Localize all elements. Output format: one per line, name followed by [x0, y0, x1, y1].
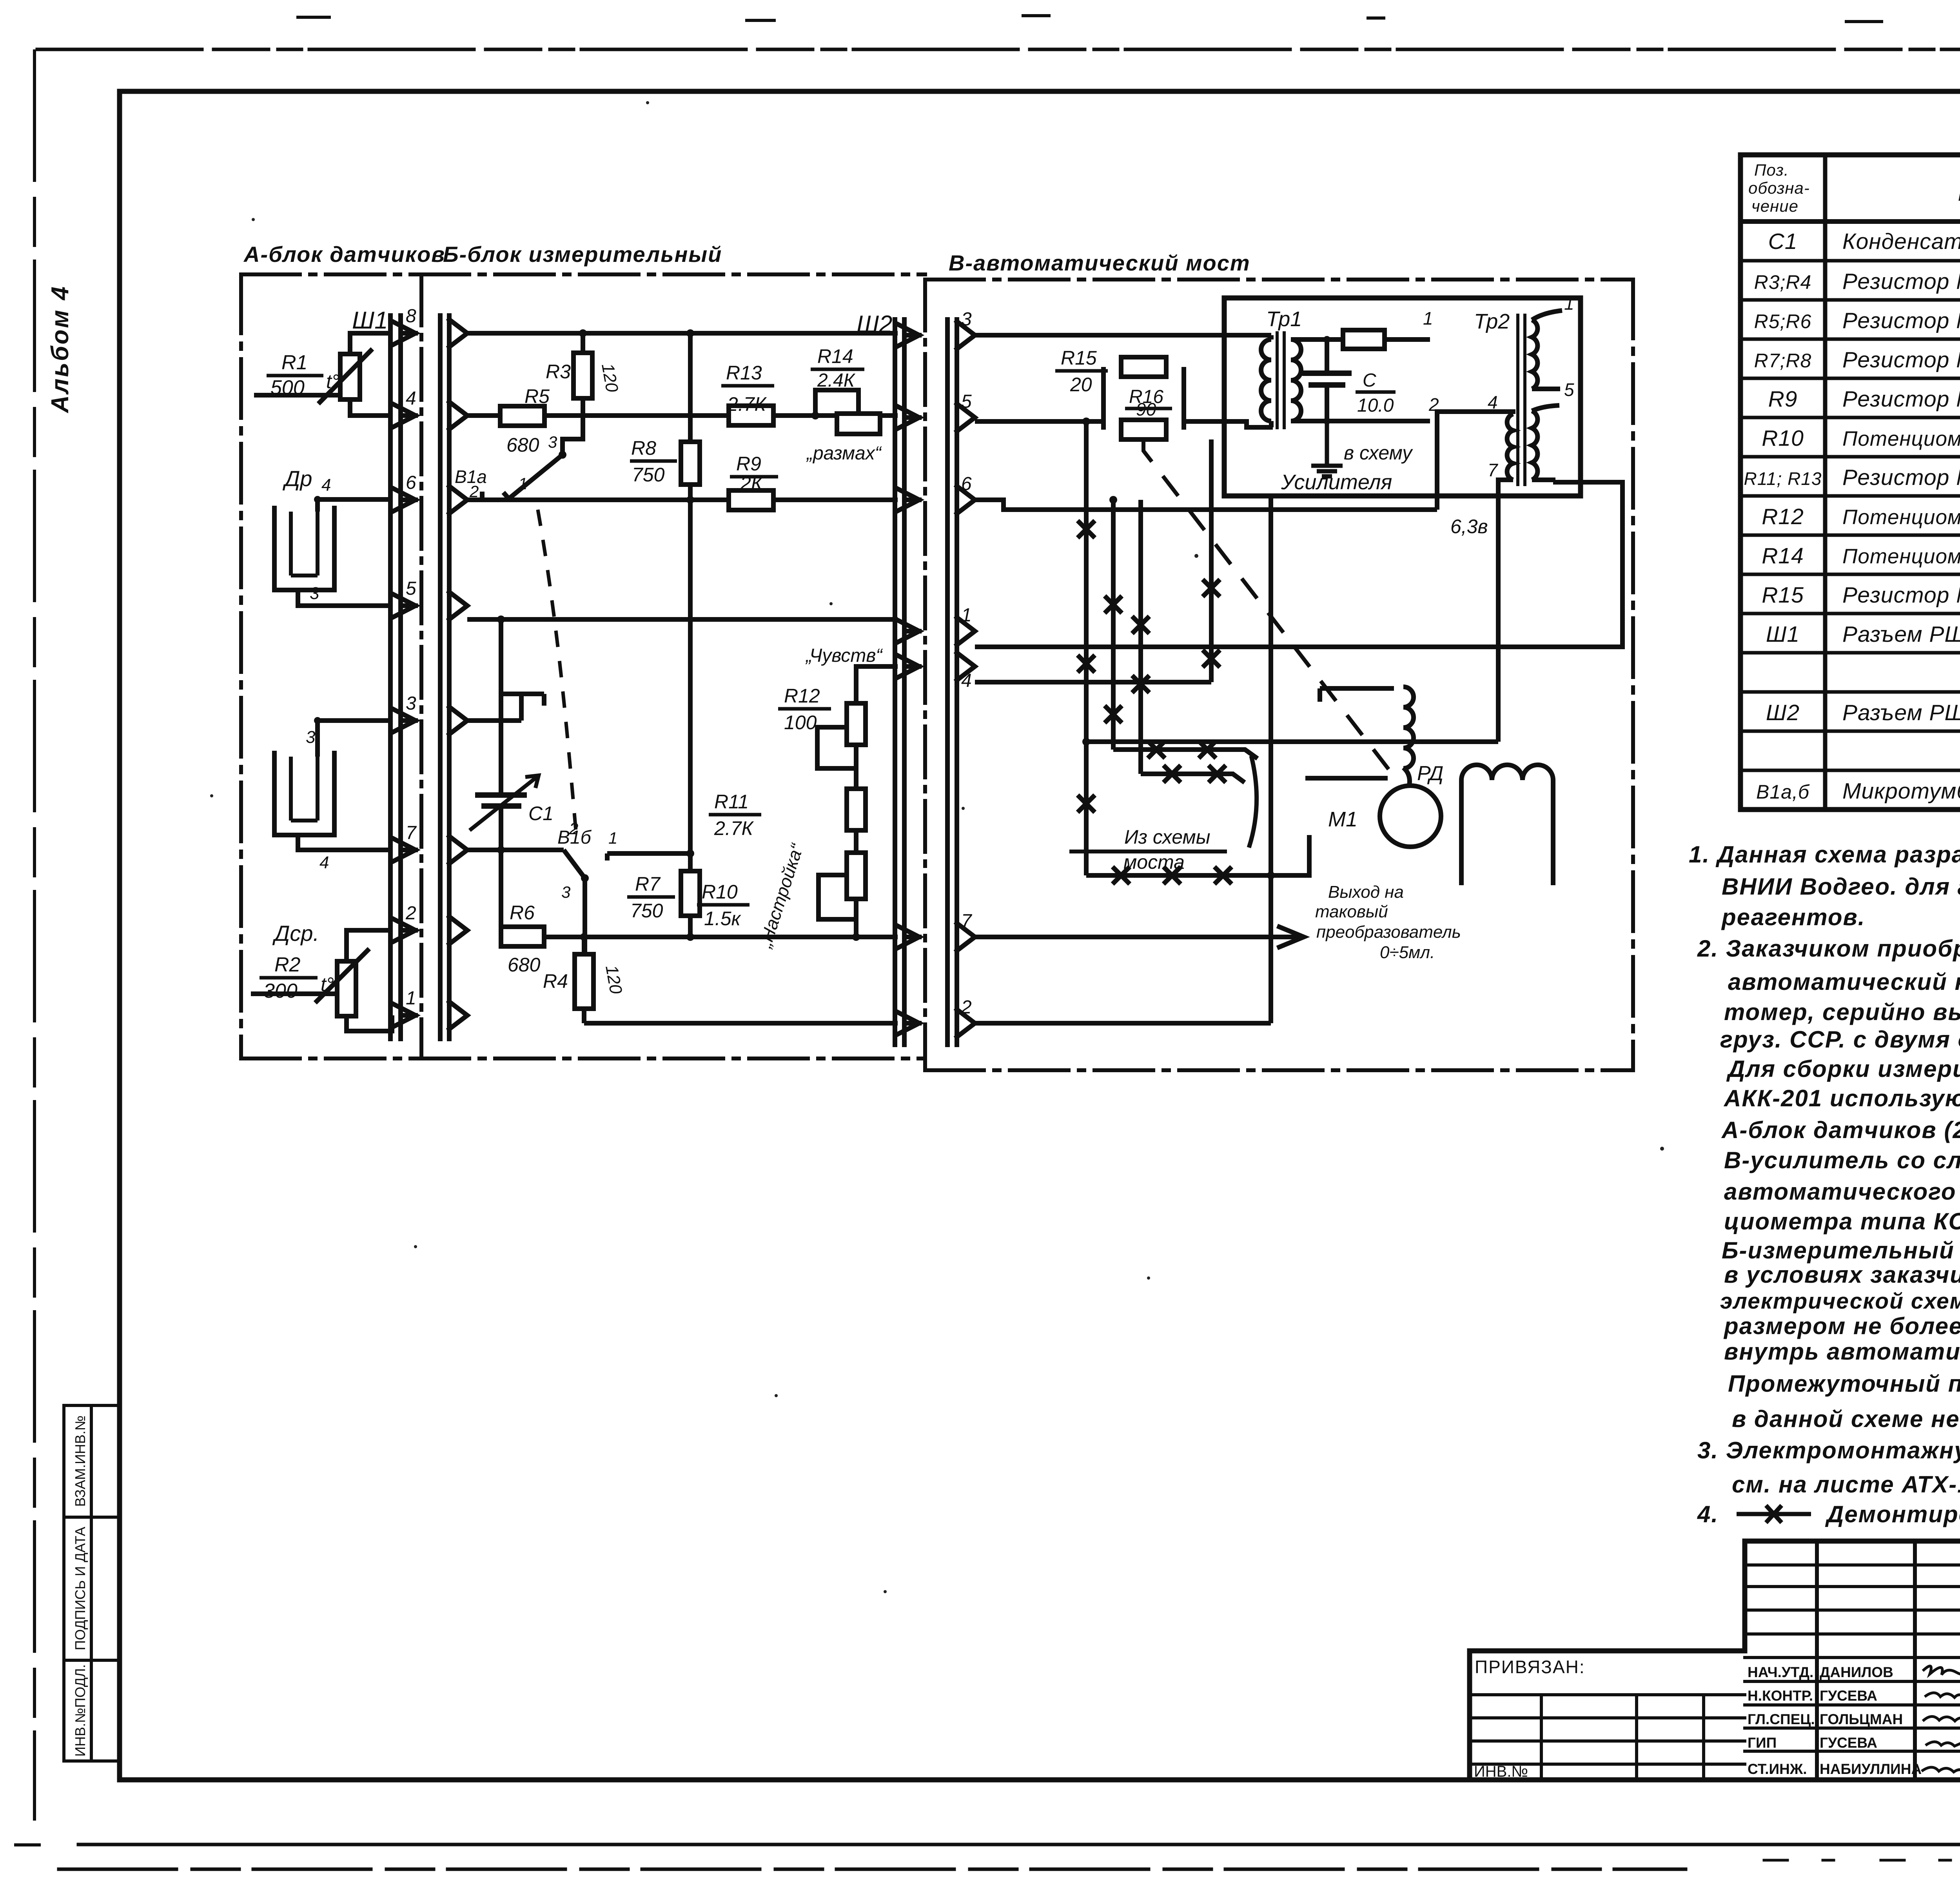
- mechanical dashed link R16 wiper to motor: [1143, 439, 1396, 778]
- svg-text:Усилителя: Усилителя: [1281, 470, 1392, 494]
- svg-text:R9: R9: [736, 453, 761, 475]
- svg-text:2К: 2К: [740, 472, 764, 494]
- svg-text:Демонтировать.: Демонтировать.: [1825, 1501, 1960, 1527]
- pin arrows male side: [394, 322, 416, 344]
- svg-text:R12: R12: [1762, 504, 1804, 529]
- svg-text:размером не более мм: 140х75х8: размером не более мм: 140х75х80, и встра…: [1723, 1313, 1960, 1339]
- Sh2 pin numbers: [961, 309, 973, 1018]
- svg-text:R2: R2: [274, 953, 301, 976]
- svg-text:R10: R10: [702, 881, 738, 903]
- resistor R6: [501, 927, 544, 946]
- scan speckles: [210, 101, 1960, 1593]
- svg-text:Альбом 4: Альбом 4: [47, 285, 74, 414]
- svg-text:НАБИУЛЛИНА: НАБИУЛЛИНА: [1820, 1761, 1922, 1777]
- svg-text:„Чувств“: „Чувств“: [805, 645, 883, 666]
- demontage legend symbol: [1737, 1505, 1811, 1523]
- svg-text:Резистор МЛТ-1-2 ком ±5%: Резистор МЛТ-1-2 ком ±5%: [1842, 387, 1960, 412]
- svg-text:ГОЛЬЦМАН: ГОЛЬЦМАН: [1820, 1711, 1903, 1727]
- svg-text:ДАНИЛОВ: ДАНИЛОВ: [1820, 1664, 1893, 1680]
- svg-text:1: 1: [1564, 293, 1574, 314]
- svg-text:R7: R7: [635, 873, 661, 895]
- svg-text:ИНВ.№ПОДЛ.: ИНВ.№ПОДЛ.: [72, 1664, 88, 1757]
- demontage horizontal 2: [1141, 765, 1245, 782]
- svg-text:4: 4: [321, 476, 331, 495]
- wire bus pin2 right: [975, 1021, 1271, 1026]
- svg-text:в данной схеме не используется: в данной схеме не используется.: [1732, 1406, 1960, 1432]
- svg-text:6: 6: [961, 474, 972, 494]
- svg-text:3. Электромонтажную схему блок: 3. Электромонтажную схему блока измерите…: [1697, 1437, 1960, 1463]
- block bottom boundary: [241, 1057, 925, 1060]
- svg-text:Промежуточный преобразователь: Промежуточный преобразователь прибора АК…: [1728, 1371, 1960, 1397]
- svg-text:в условиях заказчика в соответ: в условиях заказчика в соответствии с пр…: [1724, 1262, 1960, 1288]
- demontage wire vertical 4: [1203, 439, 1220, 682]
- svg-text:В-автоматический мост: В-автоматический мост: [949, 251, 1250, 275]
- stator coil: [1461, 765, 1553, 885]
- svg-text:Из схемы: Из схемы: [1124, 826, 1210, 848]
- svg-text:R3: R3: [546, 361, 571, 383]
- staff rows: [1745, 1681, 1960, 1751]
- svg-text:3: 3: [548, 433, 557, 451]
- svg-text:В-усилитель со следящей систем: В-усилитель со следящей системой (реохор…: [1724, 1147, 1960, 1173]
- svg-text:„размах“: „размах“: [806, 443, 882, 464]
- wire stub pin3: [467, 718, 521, 723]
- svg-text:2: 2: [469, 482, 479, 501]
- svg-text:Ш1: Ш1: [1766, 622, 1800, 647]
- output label: [1315, 882, 1461, 962]
- svg-text:обозна-: обозна-: [1748, 179, 1810, 197]
- thermistor R1: [254, 333, 392, 416]
- svg-text:750: 750: [630, 900, 663, 922]
- svg-text:3: 3: [561, 883, 570, 901]
- svg-text:Б-блок измерительный: Б-блок измерительный: [443, 242, 722, 267]
- svg-text:90: 90: [1136, 399, 1156, 419]
- svg-text:автоматический кондуктометриче: автоматический кондуктометрический конце…: [1728, 969, 1960, 995]
- svg-text:t°: t°: [326, 370, 339, 392]
- wire pin7 to switch V1b: [467, 848, 564, 852]
- bracket curve: [1249, 756, 1257, 848]
- motor M1: [1380, 786, 1441, 847]
- terminal 2 wire: [1291, 419, 1430, 423]
- potentiometer R12: [817, 666, 898, 768]
- svg-text:Поз.: Поз.: [1754, 161, 1789, 179]
- svg-text:4: 4: [406, 388, 416, 409]
- svg-text:Ш2: Ш2: [1766, 700, 1800, 725]
- amplifier return wire: [1269, 496, 1273, 1023]
- svg-text:ГИП: ГИП: [1748, 1735, 1777, 1751]
- svg-text:Б-измерительный согласующий бл: Б-измерительный согласующий блок, собира…: [1722, 1237, 1960, 1264]
- svg-text:5: 5: [1564, 379, 1574, 400]
- svg-text:автоматического моста типа КСМ: автоматического моста типа КСМ3-М или по…: [1724, 1178, 1960, 1205]
- svg-text:7: 7: [406, 822, 417, 843]
- svg-text:R15: R15: [1061, 347, 1097, 369]
- svg-text:7: 7: [961, 911, 973, 931]
- block A left boundary: [239, 274, 243, 1058]
- svg-text:0÷5мл.: 0÷5мл.: [1380, 943, 1435, 962]
- svg-text:R6: R6: [510, 902, 535, 924]
- svg-text:1: 1: [608, 829, 617, 847]
- resistor R3: [573, 333, 592, 398]
- svg-text:6,3в: 6,3в: [1450, 516, 1488, 537]
- resistor R15: [1103, 357, 1184, 439]
- svg-text:Резистор МЛТ-1-2,7ком.± 2%: Резистор МЛТ-1-2,7ком.± 2%: [1842, 465, 1960, 490]
- block B/V boundary through connector Sh2: [923, 280, 927, 1070]
- svg-text:4: 4: [961, 670, 972, 691]
- svg-text:С1: С1: [528, 802, 554, 824]
- block A/B boundary through connector Sh1: [419, 274, 423, 1058]
- sheet top edge dashed: [37, 48, 1960, 51]
- svg-text:ИНВ.№: ИНВ.№: [1474, 1763, 1528, 1780]
- svg-text:НАЧ.УТД.: НАЧ.УТД.: [1748, 1664, 1813, 1680]
- svg-text:R11: R11: [714, 791, 749, 813]
- wire bus pin3 right: [975, 333, 1271, 338]
- svg-text:Потенциометр СП2-3а-100Ом.±2%: Потенциометр СП2-3а-100Ом.±2%: [1842, 506, 1960, 529]
- svg-text:R15: R15: [1762, 583, 1804, 608]
- svg-text:Резистор МЛТ-1-750 ом.±5%: Резистор МЛТ-1-750 ом.±5%: [1842, 347, 1960, 372]
- svg-text:Ш2: Ш2: [857, 311, 893, 338]
- svg-text:3: 3: [961, 309, 972, 330]
- svg-text:Резистор МЛТ-1-20ом. ±1%: Резистор МЛТ-1-20ом. ±1%: [1842, 583, 1960, 608]
- svg-text:2: 2: [961, 997, 972, 1018]
- svg-text:R11; R13: R11; R13: [1744, 468, 1822, 489]
- signatures: [1922, 1666, 1960, 1774]
- wire bus pin1 right (to Tr2 lower winding): [975, 482, 1622, 647]
- left margin stamp boxes: [64, 1405, 120, 1761]
- svg-text:2.7К: 2.7К: [714, 817, 754, 839]
- svg-text:Потенциометр СП3-9а-1.5кОм. ±2: Потенциометр СП3-9а-1.5кОм. ±2%: [1842, 427, 1960, 450]
- potentiometer R14: [815, 390, 880, 434]
- scan noise dashes top margin: [298, 16, 1960, 22]
- svg-text:В1а,б: В1а,б: [1756, 781, 1810, 803]
- svg-text:100: 100: [784, 712, 817, 733]
- svg-text:2.7К: 2.7К: [727, 393, 767, 415]
- svg-text:680: 680: [506, 434, 539, 456]
- svg-text:R7;R8: R7;R8: [1754, 350, 1812, 372]
- svg-text:груз. ССР. с двумя датчиками с: груз. ССР. с двумя датчиками с постоянно…: [1720, 1026, 1960, 1053]
- thermistor R2: [251, 930, 392, 1031]
- wire bus pin6-pin6: [467, 497, 898, 502]
- svg-text:томер, серийно выпускаемый на: томер, серийно выпускаемый на заводе „Го…: [1724, 999, 1960, 1025]
- Sh1 pin numbers: [405, 306, 417, 1009]
- block V right boundary: [1631, 280, 1635, 1070]
- svg-text:ГЛ.СПЕЦ.: ГЛ.СПЕЦ.: [1748, 1711, 1815, 1727]
- svg-text:R1: R1: [281, 351, 307, 374]
- resistor R9: [729, 490, 773, 510]
- svg-text:2: 2: [405, 903, 416, 924]
- svg-text:R4: R4: [543, 970, 568, 992]
- svg-text:циометра типа КСП3-П.: циометра типа КСП3-П.: [1724, 1208, 1960, 1235]
- svg-text:Разъем РШАГ-14: Разъем РШАГ-14: [1842, 622, 1960, 647]
- transformer Tr2: [1437, 310, 1562, 742]
- demontage wire vertical 1: [1078, 421, 1095, 875]
- svg-text:Др: Др: [282, 466, 312, 491]
- svg-text:300: 300: [263, 980, 298, 1002]
- switch V1a: [482, 398, 583, 500]
- svg-text:3: 3: [306, 728, 316, 747]
- resistor R7: [681, 871, 700, 916]
- wire 6.3V: [1086, 739, 1498, 744]
- svg-text:8: 8: [406, 306, 416, 327]
- svg-text:электрической схемой, на отдел: электрической схемой, на отдельной плате…: [1720, 1289, 1960, 1314]
- svg-text:R5: R5: [524, 385, 550, 407]
- resistor R4: [575, 937, 593, 1023]
- mechanical link V1a-V1b dashed: [538, 510, 576, 835]
- resistor R11: [847, 745, 866, 853]
- privyazan block: [1470, 1695, 1745, 1764]
- svg-text:Для сборки измерителя дозы коа: Для сборки измерителя дозы коагулянта от…: [1726, 1056, 1960, 1082]
- wire bus pin7 right with arrow (output): [975, 926, 1304, 948]
- sensor Dsr (electrode cell): [274, 721, 392, 850]
- bottom margin line: [78, 1843, 1960, 1846]
- resistor R8: [681, 333, 700, 937]
- demontage wire vertical 2: [1105, 500, 1122, 750]
- wire bus pin8-pin3: [467, 331, 898, 336]
- svg-text:500: 500: [270, 376, 305, 399]
- svg-text:1.5к: 1.5к: [704, 908, 742, 930]
- svg-text:РД: РД: [1417, 762, 1443, 785]
- pin sockets female side: [449, 320, 467, 1029]
- svg-text:R13: R13: [726, 362, 762, 384]
- svg-text:2.4К: 2.4К: [817, 370, 856, 391]
- svg-text:3: 3: [406, 693, 416, 714]
- ground: [1311, 421, 1343, 476]
- resistor R5: [500, 406, 544, 426]
- capacitor C1 variable: [470, 619, 539, 937]
- svg-text:Выход на: Выход на: [1328, 882, 1404, 902]
- svg-text:4: 4: [1488, 392, 1498, 412]
- svg-text:6: 6: [406, 472, 416, 493]
- wire bus pin4-pin5: [467, 413, 898, 418]
- svg-text:Разъем РШАВ-6: Разъем РШАВ-6: [1842, 700, 1960, 725]
- svg-text:Резистор МЛТ-1-120 Ом. ±5%: Резистор МЛТ-1-120 Ом. ±5%: [1842, 269, 1960, 294]
- wire bus pin5 right: [975, 419, 1103, 424]
- svg-text:М1: М1: [1328, 808, 1357, 831]
- svg-text:преобразователь: преобразователь: [1316, 922, 1461, 942]
- svg-text:2. Заказчиком приобретается пр: 2. Заказчиком приобретается прибор типа …: [1697, 935, 1960, 962]
- demontage wire vertical 3: [1132, 500, 1149, 774]
- svg-text:СТ.ИНЖ.: СТ.ИНЖ.: [1748, 1761, 1807, 1777]
- svg-text:АКК-201 используются два блока: АКК-201 используются два блока:: [1723, 1085, 1960, 1111]
- svg-text:С: С: [1363, 370, 1376, 391]
- svg-text:R8: R8: [631, 437, 656, 459]
- svg-text:1: 1: [518, 474, 527, 493]
- svg-text:чение: чение: [1751, 197, 1798, 215]
- svg-text:4.: 4.: [1697, 1501, 1719, 1527]
- svg-text:в схему: в схему: [1344, 442, 1413, 464]
- svg-text:1: 1: [406, 988, 416, 1009]
- svg-text:Дср.: Дср.: [272, 921, 319, 946]
- svg-text:Наименование: Наименование: [1958, 177, 1960, 206]
- svg-text:R5;R6: R5;R6: [1754, 310, 1812, 332]
- svg-text:Резистор МЛТ-1-680 Ом.±5%: Резистор МЛТ-1-680 Ом.±5%: [1842, 308, 1960, 333]
- svg-text:3: 3: [310, 584, 319, 603]
- potentiometer R10: [818, 853, 866, 937]
- svg-text:ПРИВЯЗАН:: ПРИВЯЗАН:: [1475, 1657, 1585, 1677]
- sensor Dr (electrode cell): [274, 499, 392, 606]
- svg-text:R3;R4: R3;R4: [1754, 271, 1812, 293]
- capacitor C: [1302, 339, 1352, 421]
- resistor R13: [729, 406, 773, 425]
- svg-text:моста: моста: [1123, 851, 1185, 873]
- svg-text:5: 5: [961, 391, 972, 412]
- svg-text:Конденсатор КПК-МН-6/25: Конденсатор КПК-МН-6/25: [1842, 229, 1960, 254]
- wire bus pin2 left: [584, 1021, 898, 1026]
- svg-text:1. Данная схема разработана НП: 1. Данная схема разработана НПО„Аналитпр…: [1689, 841, 1960, 868]
- svg-text:внутрь автоматического самопис: внутрь автоматического самописца.: [1724, 1338, 1960, 1365]
- svg-text:680: 680: [508, 954, 541, 976]
- wire bus pin5-pin1: [467, 617, 898, 622]
- svg-text:R14: R14: [817, 345, 853, 367]
- svg-text:Ш1: Ш1: [352, 307, 388, 334]
- svg-text:см. на листе АТХ-12: см. на листе АТХ-12: [1732, 1471, 1960, 1498]
- demontage horizontal 1: [1113, 741, 1258, 759]
- shield symbol: [499, 694, 544, 721]
- svg-text:Микротумблер МТ3.: Микротумблер МТ3.: [1842, 779, 1960, 804]
- svg-text:Потенциометр СП3-9а-2,4кОм.±2%: Потенциометр СП3-9а-2,4кОм.±2%: [1842, 545, 1960, 568]
- wire bus pin4 right: [975, 680, 1211, 684]
- staff names: [1748, 1664, 1922, 1777]
- wire bus pin7 (R6 bus): [544, 935, 898, 939]
- coil RD: [1305, 687, 1414, 786]
- svg-text:20: 20: [1070, 374, 1092, 396]
- svg-text:реагентов.: реагентов.: [1721, 904, 1865, 930]
- svg-text:ГУСЕВА: ГУСЕВА: [1820, 1735, 1877, 1751]
- wire bus pin5 to Tr1: [1184, 421, 1273, 427]
- wire bus pin6 right: [975, 500, 1437, 510]
- sheet bottom edge dashed: [59, 1868, 1686, 1871]
- svg-text:1: 1: [1423, 308, 1433, 329]
- svg-text:ВЗАМ.ИНВ.№: ВЗАМ.ИНВ.№: [72, 1415, 88, 1507]
- svg-text:4: 4: [319, 853, 329, 872]
- svg-text:R9: R9: [1768, 387, 1798, 412]
- svg-text:Н.КОНТР.: Н.КОНТР.: [1748, 1688, 1813, 1704]
- svg-text:R14: R14: [1762, 543, 1804, 568]
- filter resistor: [1343, 330, 1385, 349]
- demontage horizontal 3: [1086, 835, 1309, 884]
- svg-text:С1: С1: [1768, 229, 1798, 254]
- svg-text:А-блок датчиков: А-блок датчиков: [243, 242, 445, 267]
- svg-text:таковый: таковый: [1315, 902, 1388, 921]
- svg-text:Тр2: Тр2: [1474, 310, 1510, 333]
- upper small grid: [1745, 1565, 1960, 1658]
- svg-text:А-блок датчиков (2шт.) проточн: А-блок датчиков (2шт.) проточного типа с…: [1721, 1117, 1960, 1143]
- block boundary dash-dot top: [241, 272, 925, 276]
- svg-text:7: 7: [1488, 460, 1498, 480]
- transformer Tr1: [1261, 331, 1343, 429]
- svg-text:10.0: 10.0: [1357, 395, 1394, 416]
- svg-text:Тр1: Тр1: [1266, 307, 1302, 331]
- outer: [1470, 1541, 1960, 1780]
- sheet left edge dashed: [33, 51, 36, 1819]
- svg-text:5: 5: [406, 578, 416, 599]
- switch V1b: [564, 850, 690, 954]
- svg-text:1: 1: [961, 605, 972, 626]
- svg-text:2: 2: [569, 819, 578, 838]
- svg-text:ВНИИ Водгео. для автоматизации: ВНИИ Водгео. для автоматизации приготовл…: [1722, 873, 1960, 900]
- svg-text:R10: R10: [1762, 426, 1804, 451]
- svg-text:ПОДПИСЬ И ДАТА: ПОДПИСЬ И ДАТА: [72, 1527, 88, 1650]
- svg-text:t°: t°: [321, 973, 334, 995]
- svg-text:ГУСЕВА: ГУСЕВА: [1820, 1688, 1877, 1704]
- svg-text:750: 750: [632, 464, 665, 486]
- svg-text:R12: R12: [784, 685, 820, 707]
